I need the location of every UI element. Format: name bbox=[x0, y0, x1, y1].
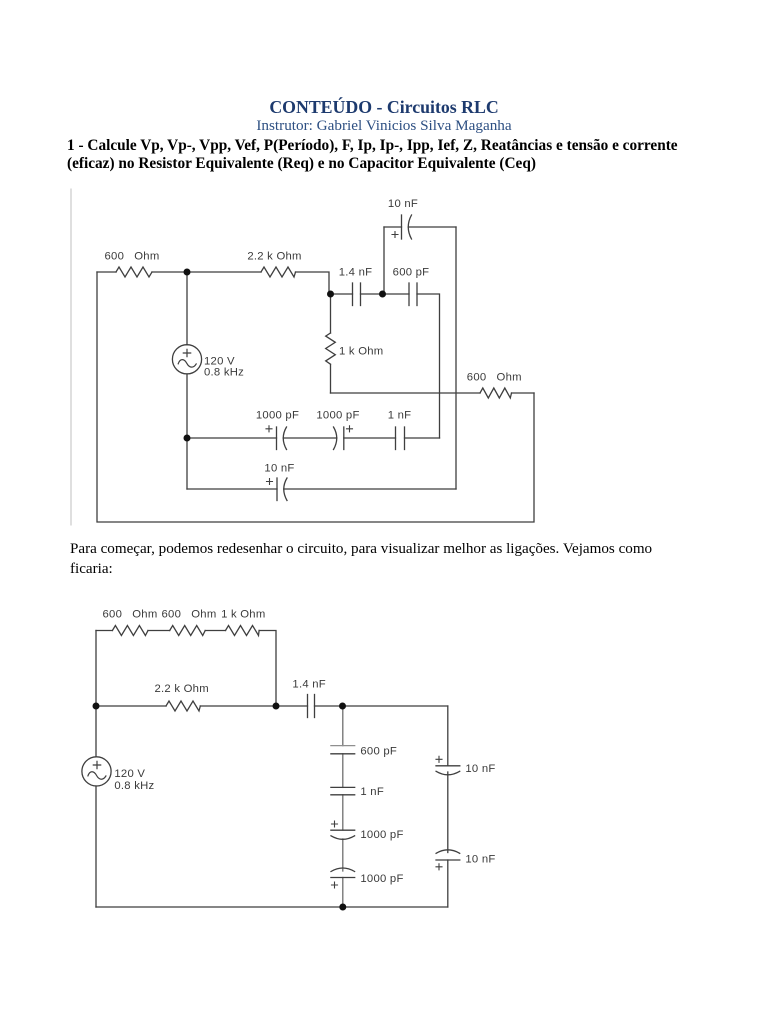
svg-text:0.8 kHz: 0.8 kHz bbox=[204, 367, 244, 379]
svg-text:2.2 k Ohm: 2.2 k Ohm bbox=[247, 251, 301, 263]
svg-text:1000 pF: 1000 pF bbox=[360, 873, 403, 885]
svg-text:600 pF: 600 pF bbox=[360, 746, 397, 758]
svg-text:600 Ohm: 600 Ohm bbox=[162, 609, 217, 621]
svg-text:600 Ohm: 600 Ohm bbox=[105, 251, 160, 263]
svg-text:1 nF: 1 nF bbox=[388, 410, 412, 422]
svg-text:1 nF: 1 nF bbox=[360, 786, 384, 798]
svg-text:1.4 nF: 1.4 nF bbox=[292, 679, 326, 691]
svg-text:10 nF: 10 nF bbox=[465, 854, 495, 866]
svg-text:1000 pF: 1000 pF bbox=[360, 829, 403, 841]
svg-text:10 nF: 10 nF bbox=[465, 763, 495, 775]
svg-text:1000 pF: 1000 pF bbox=[256, 410, 299, 422]
svg-text:2.2 k Ohm: 2.2 k Ohm bbox=[155, 683, 209, 695]
svg-text:10 nF: 10 nF bbox=[388, 198, 418, 210]
svg-text:1.4 nF: 1.4 nF bbox=[339, 267, 373, 279]
svg-text:600 Ohm: 600 Ohm bbox=[103, 609, 158, 621]
svg-text:0.8 kHz: 0.8 kHz bbox=[114, 780, 154, 792]
svg-text:600 pF: 600 pF bbox=[393, 267, 430, 279]
svg-text:1 k Ohm: 1 k Ohm bbox=[221, 609, 265, 621]
svg-text:1000 pF: 1000 pF bbox=[316, 410, 359, 422]
svg-text:120 V: 120 V bbox=[114, 768, 145, 780]
svg-text:1 k Ohm: 1 k Ohm bbox=[339, 346, 383, 358]
svg-text:600 Ohm: 600 Ohm bbox=[467, 372, 522, 384]
svg-text:10 nF: 10 nF bbox=[264, 463, 294, 475]
